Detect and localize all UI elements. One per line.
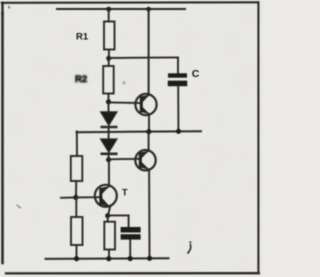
wire: R1 to junction <box>108 50 110 59</box>
wire: Q1 emitter down to mid bus <box>148 115 150 131</box>
wire: R4 to bottom bus <box>76 245 78 259</box>
node: R3/R4/T base junction <box>73 195 78 200</box>
wire: top node to R1 <box>108 9 110 22</box>
node: D2 / Q2 base / T collector junction <box>106 157 111 162</box>
wire: stub going left from junction <box>61 197 76 199</box>
wire: junction right to C2 <box>108 214 129 216</box>
speck top-left <box>8 7 11 9</box>
node: T emitter / R5 / C2 junction <box>105 213 110 218</box>
wire: C2 bottom plate to bottom bus <box>129 240 131 258</box>
speck left tick <box>17 205 21 208</box>
node: R2 / Q1 base junction <box>106 99 111 104</box>
top supply wire <box>57 8 185 10</box>
wire: junction down to T collector <box>108 160 110 186</box>
label T <box>122 188 128 198</box>
wire: junction down to R4 <box>75 197 77 217</box>
wire: down to C top plate <box>177 58 179 74</box>
frame border <box>2 2 259 273</box>
wire: C bottom plate down to mid bus <box>177 86 179 130</box>
resistor R5 <box>104 222 115 250</box>
wire: down to C2 top plate <box>128 215 130 227</box>
label C <box>192 68 200 80</box>
node: R4 on bottom bus <box>74 256 79 261</box>
diode D1 <box>101 104 117 127</box>
bottom bus wire <box>46 257 169 260</box>
label R2 <box>75 74 87 85</box>
wire: Q1 base wire <box>109 102 142 105</box>
node: top wire / collector rail junction <box>146 7 151 12</box>
resistor R2 <box>103 66 114 94</box>
node: R1/R2 junction <box>106 56 111 61</box>
wire: R3 to junction <box>75 181 77 197</box>
svg-text:C: C <box>192 68 200 80</box>
wire: junction to capacitor C (horizontal) <box>109 56 178 59</box>
resistor R1 <box>104 22 115 50</box>
node: R5 on bottom bus <box>106 256 111 261</box>
node: Q2 emitter on bottom bus <box>147 256 152 261</box>
wire: mid bus left end down to R3 <box>76 132 78 157</box>
transistor Q1 <box>135 94 156 115</box>
speck plus <box>123 81 126 84</box>
node: Q1 emitter on mid bus <box>146 129 151 134</box>
node: C2 on bottom bus <box>128 256 133 261</box>
middle bus wire <box>77 131 201 132</box>
wire: T emitter down to junction <box>108 207 110 215</box>
wire: R1/R2 junction to R2 <box>108 58 110 66</box>
node: C lead on mid bus <box>176 129 181 134</box>
resistor R3 <box>71 156 83 181</box>
svg-text:R2: R2 <box>75 74 87 85</box>
wire: Q2 base wire <box>109 158 140 161</box>
wire: D2 to lower junction <box>108 154 110 160</box>
mark: small j near bottom right <box>188 241 191 253</box>
wire: mid bus down to Q2 collector <box>148 132 150 151</box>
label R1 <box>76 32 89 43</box>
wire: collector rail from top node down to Q1 <box>148 9 150 94</box>
diode D2 <box>101 139 117 154</box>
wire: junction down to R5 <box>107 216 109 222</box>
wire: D1 to D2 <box>108 127 110 139</box>
resistor R4 <box>71 217 83 245</box>
node: top wire / R1 junction <box>106 7 111 12</box>
wire: Q2 emitter down to bottom bus <box>148 170 150 258</box>
svg-text:R1: R1 <box>76 32 89 43</box>
svg-text:T: T <box>122 188 128 198</box>
capacitor C2 top plate <box>121 227 141 233</box>
transistor Q2 <box>135 150 155 170</box>
wire: T base wire <box>76 196 101 198</box>
capacitor C top plate <box>168 73 187 77</box>
capacitor C2 bottom plate <box>121 234 141 239</box>
wire: R5 to bottom bus <box>108 250 110 259</box>
capacitor C bottom plate <box>168 81 187 87</box>
transistor T <box>95 185 117 207</box>
wire: R2 to base junction <box>108 94 110 102</box>
